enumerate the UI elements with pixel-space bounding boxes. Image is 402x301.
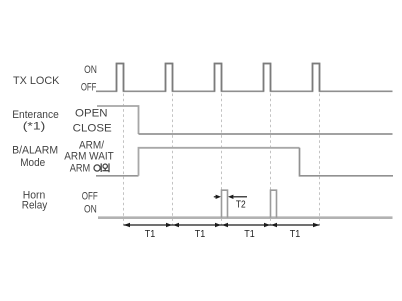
svg-text:ON: ON xyxy=(84,204,97,216)
svg-text:T1: T1 xyxy=(290,229,301,240)
svg-text:Relay: Relay xyxy=(22,200,48,212)
svg-text:CLOSE: CLOSE xyxy=(73,123,112,135)
dashed guide line at TX pulse 3 fall xyxy=(221,94,223,226)
Horn Relay pulse 1 (T2 pulse) xyxy=(222,190,228,218)
T1 dimension line with arrowheads xyxy=(124,224,320,226)
Horn Relay pulse 2 xyxy=(271,190,277,218)
T2 dimension arrows xyxy=(214,196,216,198)
svg-text:T1: T1 xyxy=(195,229,206,240)
TX LOCK pulse edges (darker) xyxy=(117,64,320,92)
svg-text:ON: ON xyxy=(84,64,97,76)
svg-text:T2: T2 xyxy=(236,200,246,211)
Entrance waveform: OPEN then CLOSE xyxy=(97,106,139,134)
hangul glyph "i" : circle + vertical bar xyxy=(94,163,109,172)
svg-text:ARM: ARM xyxy=(70,163,91,175)
svg-text:OFF: OFF xyxy=(82,191,98,203)
svg-text:Enterance: Enterance xyxy=(12,109,59,121)
svg-text:Mode: Mode xyxy=(20,157,45,169)
svg-text:B/ALARM: B/ALARM xyxy=(12,145,58,157)
svg-text:TX LOCK: TX LOCK xyxy=(13,75,60,87)
svg-text:T1: T1 xyxy=(145,229,156,240)
dashed guide line at TX pulse 4 fall xyxy=(270,94,272,226)
svg-text:T1: T1 xyxy=(244,229,255,240)
Horn Relay ON baseline (thick light gray) xyxy=(98,216,393,219)
svg-text:OPEN: OPEN xyxy=(75,108,108,120)
TX LOCK waveform with 5 pulses xyxy=(96,64,393,92)
hangul glyph "oe" : circle + bottom bar + tick + vertical bar xyxy=(103,164,107,168)
dashed guide line at TX pulse 2 fall xyxy=(172,94,174,226)
svg-text:(*1): (*1) xyxy=(23,120,46,132)
svg-text:OFF: OFF xyxy=(81,82,97,94)
dashed guide line at TX pulse 1 fall xyxy=(123,94,125,226)
dashed guide line at TX pulse 5 fall xyxy=(319,94,321,226)
B/ALARM mode waveform: low, ARM WAIT high, low xyxy=(96,175,139,177)
svg-text:ARM WAIT: ARM WAIT xyxy=(64,151,114,163)
